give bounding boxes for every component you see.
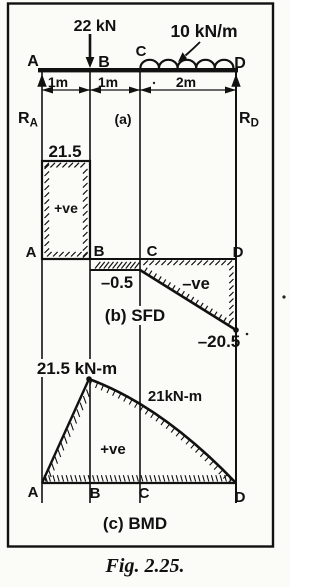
BMD rising line A to peak xyxy=(42,379,89,483)
svg-text:10 kN/m: 10 kN/m xyxy=(170,21,237,41)
SFD small rect hatch xyxy=(95,262,140,269)
SFD C-D axis hatch xyxy=(143,261,232,266)
svg-text:C: C xyxy=(147,243,158,260)
SFD rectangle A-B xyxy=(42,161,90,259)
BMD curve B to D xyxy=(89,379,236,483)
reaction arrow RD xyxy=(231,74,240,87)
svg-text:21.5: 21.5 xyxy=(48,142,81,161)
node D vertical line xyxy=(235,70,237,503)
UDL semicircle humps C to D xyxy=(140,60,233,68)
svg-text:(a): (a) xyxy=(114,111,131,127)
svg-text:B: B xyxy=(90,485,101,502)
svg-text:A: A xyxy=(27,53,39,70)
svg-text:2m: 2m xyxy=(176,74,196,90)
svg-text:D: D xyxy=(233,244,244,261)
svg-text:D: D xyxy=(234,55,246,72)
svg-text:–0.5: –0.5 xyxy=(101,274,133,292)
svg-text:–20.5: –20.5 xyxy=(198,332,241,351)
BMD curve hatch xyxy=(90,380,232,483)
svg-text:A: A xyxy=(26,244,37,261)
svg-text:(c) BMD: (c) BMD xyxy=(103,514,167,533)
beam AD xyxy=(38,68,238,72)
SFD caption mask xyxy=(102,306,168,325)
svg-text:1m: 1m xyxy=(48,74,68,90)
load arrow 22 kN at B xyxy=(86,34,95,68)
SFD hypotenuse hatch xyxy=(144,268,231,325)
scan edge marks xyxy=(153,82,286,336)
svg-text:21kN-m: 21kN-m xyxy=(148,388,202,405)
svg-text:–ve: –ve xyxy=(182,275,210,293)
node C vertical line xyxy=(139,70,141,503)
svg-text:B: B xyxy=(94,243,105,260)
svg-text:D: D xyxy=(235,489,246,506)
BMD baseline hatch xyxy=(44,475,231,481)
svg-text:22 kN: 22 kN xyxy=(74,18,117,35)
svg-text:Fig. 2.25.: Fig. 2.25. xyxy=(105,555,185,577)
node A vertical line xyxy=(41,70,43,503)
svg-text:+ve: +ve xyxy=(100,441,125,458)
svg-text:(b) SFD: (b) SFD xyxy=(105,306,165,325)
BMD peak label mask xyxy=(35,359,118,377)
svg-text:+ve: +ve xyxy=(54,200,78,216)
BMD baseline xyxy=(42,482,236,484)
border frame xyxy=(8,4,273,547)
dimension line xyxy=(42,89,236,91)
svg-text:1m: 1m xyxy=(98,74,118,90)
BMD peak dot xyxy=(86,376,92,382)
svg-text:A: A xyxy=(28,484,39,501)
reaction arrow RA xyxy=(37,74,46,87)
SFD D vertical hatch xyxy=(229,266,233,322)
svg-text:C: C xyxy=(139,485,150,502)
svg-text:B: B xyxy=(98,54,110,71)
SFD rect hatching xyxy=(44,163,87,258)
SFD axis A to D xyxy=(42,258,236,260)
SFD D vertical edge xyxy=(235,259,237,330)
node B vertical line xyxy=(89,70,91,503)
SFD end dot xyxy=(233,327,239,333)
leader arrow to UDL xyxy=(178,42,200,62)
SFD hypotenuse C to D xyxy=(140,270,236,330)
svg-text:21.5 kN-m: 21.5 kN-m xyxy=(37,359,117,378)
svg-text:C: C xyxy=(136,43,147,60)
SFD small rectangle B-C bottom line xyxy=(90,269,140,271)
BMD left hatch xyxy=(45,389,89,483)
